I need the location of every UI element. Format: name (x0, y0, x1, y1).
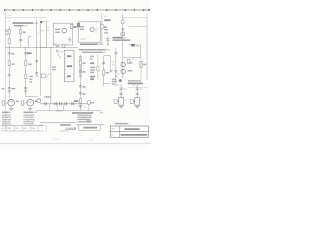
capacitor C7 (35, 61, 38, 62)
svg-text:HT+: HT+ (104, 16, 107, 18)
svg-text:1k5: 1k5 (30, 82, 33, 84)
svg-text:47u: 47u (117, 85, 120, 87)
wire dashed (129, 87, 148, 89)
svg-text:10n: 10n (11, 53, 14, 55)
mains label (52, 66, 56, 68)
ground (119, 106, 123, 108)
title strip line mid (40, 122, 77, 124)
svg-text:C2 0.02 450V: C2 0.02 450V (24, 117, 35, 119)
wire stub (62, 104, 64, 111)
node junctions (9, 46, 52, 49)
wire (39, 48, 41, 96)
terminal block TB1 (131, 44, 135, 47)
value labels (29, 76, 32, 77)
svg-text:FS1: FS1 (36, 76, 39, 78)
svg-text:0.05: 0.05 (53, 43, 56, 45)
connector CN1 (77, 23, 80, 27)
pin P2b (59, 102, 61, 105)
capacitor C4 (8, 75, 11, 76)
svg-text:5V: 5V (67, 76, 69, 78)
svg-text:+350V: +350V (104, 20, 110, 22)
note power supply (79, 49, 106, 50)
parts list rows (2, 115, 36, 126)
svg-text:AMP 30 SCHEME: AMP 30 SCHEME (125, 128, 140, 131)
svg-text:+ 5: + 5 (8, 21, 10, 23)
svg-text:a1: a1 (47, 27, 49, 29)
tube V5 (90, 28, 94, 32)
svg-text:25u: 25u (124, 89, 127, 91)
svg-text:V3: V3 (16, 101, 18, 103)
resistor R12 (97, 66, 99, 71)
divider chain RV1 (79, 56, 81, 77)
pilot lamp LP1 (56, 50, 58, 52)
wire (88, 104, 90, 111)
svg-text:5k6: 5k6 (106, 72, 109, 74)
resistor R18 (88, 101, 91, 105)
svg-text:CAP VALUES uF: CAP VALUES uF (14, 25, 29, 28)
wire (136, 84, 138, 98)
switch SW1 (46, 73, 49, 77)
label 470k (27, 52, 32, 54)
output box U2 (78, 22, 100, 42)
notes list (72, 112, 94, 114)
note text (12, 22, 33, 24)
wire (20, 27, 22, 48)
valve V7 (135, 98, 140, 106)
jack J2 (6, 33, 8, 35)
resistor R17 (130, 100, 133, 104)
title box (79, 125, 101, 130)
parts list header (2, 112, 9, 113)
strip cells (6, 126, 46, 131)
ruler tick marks (4, 9, 150, 11)
svg-text:6BQ5: 6BQ5 (80, 29, 84, 31)
svg-text:g2 270V: g2 270V (81, 38, 87, 40)
svg-text:V5: V5 (95, 29, 97, 31)
svg-text:ISS: ISS (1, 128, 3, 130)
capacitor C6 (25, 75, 27, 79)
svg-text:# 1 / 0 · 0: # 1 / 0 · 0 (53, 139, 61, 141)
wire (128, 26, 147, 28)
svg-text:16u: 16u (83, 94, 86, 96)
transformer T1 (64, 50, 74, 82)
svg-text:0.02: 0.02 (30, 76, 33, 78)
svg-text:LD30 051 ISS 2 10 66 A4: LD30 051 ISS 2 10 66 A4 (121, 134, 145, 137)
resistor R7 (21, 101, 24, 105)
svg-text:CH 1: CH 1 (9, 15, 13, 17)
svg-text:6.3: 6.3 (67, 66, 69, 68)
svg-text:REF VALUE: REF VALUE (2, 111, 12, 114)
capacitor C18 (110, 71, 113, 72)
svg-text:8k2: 8k2 (104, 27, 107, 29)
capacitor C19 (121, 29, 124, 30)
tube V2 (62, 28, 67, 33)
capacitor C2 (19, 39, 22, 40)
svg-text:25u: 25u (140, 89, 143, 91)
svg-text:NOTE: ALL RESISTORS 1/2W: NOTE: ALL RESISTORS 1/2W (13, 22, 39, 25)
wire (120, 84, 122, 98)
schematic id note (115, 123, 128, 124)
capacitor C12 (63, 44, 65, 47)
pin P3 (65, 102, 67, 105)
svg-text:for is downsized: for is downsized (115, 122, 129, 125)
wire stub (132, 58, 134, 60)
capacitor C26 (114, 71, 117, 72)
wire (101, 14, 103, 46)
label 1M (23, 32, 26, 34)
heater labels (90, 56, 94, 57)
capacitor C22 (136, 88, 139, 89)
svg-text:R3 68k 1/2W: R3 68k 1/2W (2, 119, 12, 121)
title strip line left (1, 125, 45, 127)
svg-text:AMPLIFIER 30W: AMPLIFIER 30W (84, 126, 98, 129)
svg-text:470: 470 (143, 64, 146, 66)
svg-text:C4 25uF 25V: C4 25uF 25V (24, 122, 34, 124)
svg-text:V6: V6 (124, 100, 126, 102)
resistor R1 (8, 29, 10, 34)
wire (50, 48, 52, 104)
svg-text:32u: 32u (83, 72, 86, 74)
svg-text:OUTPUT TRANS: OUTPUT TRANS (113, 36, 127, 39)
svg-text:pp: pp (95, 31, 97, 33)
wire (36, 19, 38, 48)
wire stub (48, 104, 50, 111)
svg-text:50p: 50p (68, 38, 71, 40)
svg-text:HT: HT (67, 56, 69, 58)
resistor R4 (8, 61, 10, 66)
svg-text:NOTES: VOLTAGES MEAS: NOTES: VOLTAGES MEAS (72, 112, 94, 115)
resistor R16 (114, 100, 117, 104)
svg-text:C1 25uF 350V: C1 25uF 350V (24, 115, 35, 117)
svg-text:ECC83: ECC83 (55, 29, 60, 31)
svg-text:DRV: DRV (117, 74, 120, 76)
title table (110, 126, 148, 137)
label 68k (12, 64, 15, 65)
wire (28, 37, 31, 48)
pin P1 (45, 102, 47, 105)
border left (4, 10, 6, 131)
ground (78, 106, 82, 108)
capacitor C25 (114, 53, 117, 54)
resistor R13 (103, 70, 105, 75)
amp box U1 (53, 23, 72, 45)
resistor R8 (71, 24, 73, 28)
resistor R14 (122, 20, 124, 24)
label 100k (28, 64, 32, 65)
ground (9, 109, 13, 111)
capacitor C15 (79, 86, 82, 87)
svg-text:68k: 68k (12, 64, 15, 66)
resistor R15 (140, 62, 142, 68)
wire (8, 27, 10, 48)
svg-text:g1: g1 (47, 30, 49, 32)
jack J8 (119, 79, 122, 82)
resistor R9 (101, 24, 103, 28)
screen can V1 (40, 22, 46, 48)
valve V6 (119, 98, 124, 106)
wire inner top rail right (123, 17, 147, 19)
capacitor C9 (8, 87, 11, 88)
svg-text:1. WITH 20,000 O/V: 1. WITH 20,000 O/V (78, 115, 92, 117)
svg-text:R4 2k2 1W: R4 2k2 1W (2, 122, 10, 124)
capacitor C16 (79, 93, 82, 94)
capacitor C5 (24, 53, 27, 54)
svg-text:V1: V1 (42, 31, 44, 33)
label output trans (113, 37, 123, 39)
capacitor C9b (8, 91, 11, 92)
svg-text:470k: 470k (27, 53, 31, 55)
wire (115, 48, 117, 87)
wire (64, 45, 66, 48)
transistor TR3 (121, 69, 125, 73)
wire (8, 48, 10, 98)
border right (146, 14, 148, 81)
tube V4 (27, 99, 34, 106)
svg-text:47u: 47u (133, 85, 136, 87)
svg-text:BT: BT (112, 62, 114, 64)
capacitor C13 (106, 37, 109, 45)
transistor TR2 (121, 62, 125, 66)
label output stage (80, 43, 98, 45)
svg-text:R2 470k 10%: R2 470k 10% (2, 117, 12, 119)
node +350V (104, 19, 110, 21)
wire (123, 57, 141, 59)
svg-text:R5 100k 10%: R5 100k 10% (2, 124, 12, 126)
border ruler top (4, 9, 150, 11)
svg-text:REF: REF (100, 113, 103, 115)
svg-text:RESISTORS CAP: RESISTORS CAP (24, 111, 39, 114)
pin P4 (72, 102, 74, 105)
capacitor C14 (79, 71, 82, 72)
wire (140, 58, 142, 81)
resistor R3 (8, 39, 10, 44)
wire bus (5, 47, 78, 49)
resistor R6 (2, 101, 5, 105)
wire (104, 56, 111, 87)
capacitor C20 (120, 88, 123, 89)
resistor R10 (79, 60, 81, 65)
capacitor C24 (68, 40, 71, 41)
capacitor C21 (120, 93, 123, 94)
wire stub (56, 104, 58, 111)
svg-text:MOD: MOD (15, 128, 18, 130)
wire (104, 83, 111, 85)
svg-text:8 OHM: 8 OHM (112, 81, 118, 83)
svg-text:22k: 22k (73, 27, 76, 29)
svg-text:25u: 25u (30, 79, 33, 81)
svg-text:16u: 16u (83, 87, 86, 89)
capacitor C23 (136, 93, 139, 94)
jack J7 (37, 99, 41, 103)
wire (129, 45, 141, 58)
resistor R5 (25, 61, 27, 66)
svg-text:R1 1M 1/2W: R1 1M 1/2W (2, 115, 11, 117)
node (115, 76, 116, 77)
svg-text:1M: 1M (23, 32, 26, 34)
svg-text:4k7: 4k7 (83, 63, 86, 65)
wire ground rail (36, 110, 102, 112)
title strip line right (77, 124, 105, 126)
wire (26, 96, 38, 98)
wire inner top rail left (5, 17, 45, 19)
svg-text:LONDON N.: LONDON N. (60, 131, 69, 133)
resistor R19 (127, 60, 130, 63)
svg-text:DRN: DRN (31, 128, 34, 130)
wire (25, 48, 27, 97)
svg-text:OUTPUT 8-15 OHM: OUTPUT 8-15 OHM (128, 83, 144, 85)
resistor R11 (79, 98, 81, 103)
jack J1 (6, 29, 9, 32)
scan fold line (0, 143, 150, 145)
tube V3 (8, 99, 15, 106)
svg-text:LUNAR: LUNAR (66, 127, 77, 131)
transistor TR1 (121, 32, 125, 36)
svg-text:a: a (38, 32, 39, 34)
svg-text:· | · d: · | · d (89, 139, 93, 141)
svg-text:PILOT: PILOT (60, 52, 64, 54)
svg-text:POWER SUPPLY AND HEATER WIRING: POWER SUPPLY AND HEATER WIRING (79, 49, 111, 52)
svg-text:C5 8uF 450V: C5 8uF 450V (24, 124, 34, 126)
pin P2 (55, 102, 57, 105)
capacitor C8 (35, 73, 38, 74)
capacitor C10b (24, 91, 27, 92)
svg-text:PINS: PINS (90, 72, 94, 74)
svg-text:100k: 100k (74, 101, 78, 103)
model name (83, 127, 97, 129)
wire heater rail (40, 103, 91, 105)
capacitor C10 (24, 87, 27, 88)
speaker terminal (112, 79, 116, 80)
capacitor C17 (102, 62, 105, 63)
svg-text:25u: 25u (66, 44, 69, 46)
svg-text:PUSH PULL OUTPUT STAGE: PUSH PULL OUTPUT STAGE (80, 43, 104, 46)
wire (122, 14, 124, 79)
wire (97, 55, 99, 81)
svg-text:100k: 100k (28, 64, 32, 66)
svg-text:PR: PR (112, 65, 114, 67)
wire (79, 55, 81, 111)
fuse F1 (41, 74, 45, 78)
capacitor C11 (56, 45, 59, 46)
ground (28, 109, 32, 111)
svg-text:V7: V7 (141, 100, 143, 102)
svg-text:EL84: EL84 (80, 26, 84, 28)
ground (135, 106, 139, 108)
wire (109, 58, 111, 70)
capacitor C3 (8, 53, 11, 54)
resistor R2 (20, 29, 22, 34)
wire (36, 48, 38, 76)
svg-text:25u: 25u (2, 88, 5, 90)
